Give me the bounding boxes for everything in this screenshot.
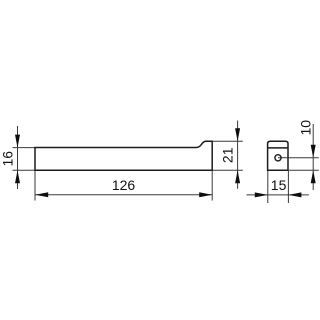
svg-text:126: 126 — [112, 177, 136, 193]
svg-text:10: 10 — [297, 120, 313, 136]
svg-text:21: 21 — [219, 147, 235, 163]
svg-text:15: 15 — [271, 177, 287, 193]
svg-text:16: 16 — [0, 151, 15, 167]
